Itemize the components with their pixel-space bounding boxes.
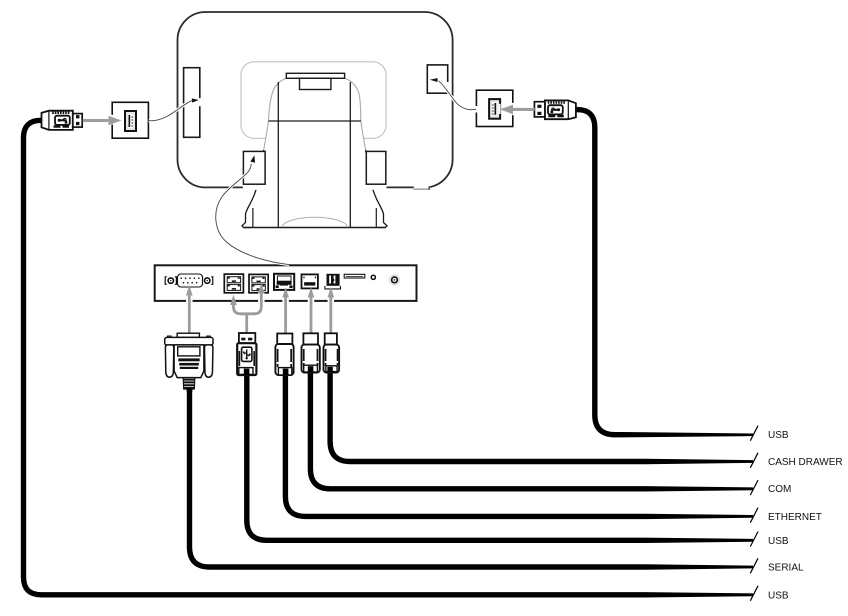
svg-text:ETHERNET: ETHERNET xyxy=(768,512,822,523)
right port box xyxy=(474,90,515,126)
ethernet port xyxy=(274,274,294,290)
sim slot xyxy=(344,274,365,278)
cash drawer port xyxy=(325,274,341,289)
cable clamp bar xyxy=(286,73,344,89)
gray arrow cash drawer xyxy=(328,287,335,333)
com port xyxy=(302,274,318,288)
svg-text:COM: COM xyxy=(768,484,791,495)
svg-text:SERIAL: SERIAL xyxy=(768,562,804,573)
right usb cable xyxy=(572,110,758,441)
gray arrow ethernet xyxy=(282,287,289,333)
USB port 2 xyxy=(249,274,268,292)
left usb plug xyxy=(42,111,83,130)
ethernet connector xyxy=(275,334,293,376)
svg-text:CASH DRAWER: CASH DRAWER xyxy=(768,457,843,468)
left port box xyxy=(110,102,148,138)
monitor left port rect xyxy=(184,68,202,138)
curve left box to monitor xyxy=(149,98,199,120)
left big gray arrow xyxy=(83,116,122,126)
svg-text:USB: USB xyxy=(768,591,789,602)
curve right box to monitor xyxy=(430,78,476,110)
DB9 port screws xyxy=(165,277,213,284)
gray U link usb xyxy=(230,283,264,334)
stand tab left xyxy=(243,151,265,184)
I/O panel xyxy=(155,265,417,301)
com connector xyxy=(302,333,320,372)
cash drawer cable xyxy=(330,369,758,468)
gray arrow serial xyxy=(186,285,193,333)
usb cable (mid) xyxy=(247,372,758,547)
curvy arrow panel to stand xyxy=(216,155,289,264)
left usb cable xyxy=(24,120,759,601)
cash drawer connector xyxy=(324,333,340,372)
right big gray arrow xyxy=(500,105,535,115)
monitor right port rect xyxy=(427,65,449,93)
USB A connector (mid) xyxy=(237,333,256,375)
labels xyxy=(768,430,843,602)
stand tab right xyxy=(366,151,386,184)
monitor body xyxy=(178,12,453,187)
right usb plug xyxy=(534,100,576,119)
USB port 1 xyxy=(224,274,243,293)
gray arrow com xyxy=(308,287,315,333)
svg-text:USB: USB xyxy=(768,430,789,441)
erase monitor bottom edge under tabs xyxy=(243,185,258,190)
com cable xyxy=(310,369,758,495)
screen recess xyxy=(241,62,386,139)
DB9 port xyxy=(178,274,203,287)
serial cable xyxy=(190,384,759,573)
bottom notch xyxy=(413,186,429,190)
stand xyxy=(242,78,387,227)
power jack xyxy=(389,274,400,285)
ethernet cable xyxy=(285,371,758,523)
svg-text:USB: USB xyxy=(768,536,789,547)
connector cable stubs xyxy=(190,366,331,392)
small circle xyxy=(371,275,375,279)
DB9 connector xyxy=(165,333,213,389)
